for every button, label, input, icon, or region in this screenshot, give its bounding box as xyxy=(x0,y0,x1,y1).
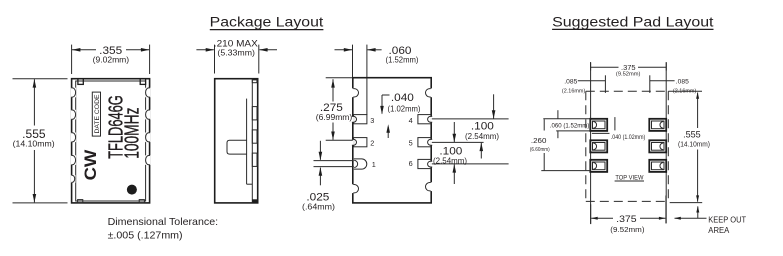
top-right corner notch xyxy=(140,79,145,85)
date code box xyxy=(92,92,101,136)
svg-text:4: 4 xyxy=(409,116,413,125)
svg-text:(1.52mm): (1.52mm) xyxy=(386,56,419,65)
svg-text:100MHz: 100MHz xyxy=(122,108,144,159)
svg-text:(2.16mm): (2.16mm) xyxy=(562,88,586,94)
side view bottom-right pad xyxy=(252,199,257,203)
pin 4 pad xyxy=(409,115,433,125)
svg-text:KEEP OUT: KEEP OUT xyxy=(708,215,746,224)
svg-text:Suggested Pad Layout: Suggested Pad Layout xyxy=(552,14,714,29)
side view lip line xyxy=(251,79,253,203)
svg-text:(6.99mm): (6.99mm) xyxy=(316,113,353,122)
svg-text:1: 1 xyxy=(372,160,376,169)
castellation top-left xyxy=(352,88,359,97)
svg-text:±.005 (.127mm): ±.005 (.127mm) xyxy=(108,229,183,241)
side view pin 1 xyxy=(252,107,257,120)
dimension .210 MAX (5.33mm) xyxy=(196,38,277,73)
svg-text:.060 (1.52mm): .060 (1.52mm) xyxy=(550,122,590,129)
pad layout: right extension line xyxy=(665,62,667,223)
bottom view outline xyxy=(352,78,434,203)
svg-text:(.64mm): (.64mm) xyxy=(302,202,335,211)
dimension .025 (.64mm) xyxy=(302,141,335,212)
dimension .085 right xyxy=(650,75,697,94)
svg-text:(6.60mm): (6.60mm) xyxy=(530,147,550,153)
side view inner step xyxy=(246,99,248,185)
svg-text:(14.10mm): (14.10mm) xyxy=(13,138,55,148)
svg-text:.085: .085 xyxy=(676,78,689,85)
dimension .555 (14.10mm) xyxy=(13,79,68,203)
pad layout: left extension line xyxy=(590,62,592,224)
top-left corner notch xyxy=(78,79,83,85)
svg-text:(5.33mm): (5.33mm) xyxy=(217,48,255,57)
dimension .100 (2.54mm) lower xyxy=(432,122,509,184)
svg-text:Package Layout: Package Layout xyxy=(210,14,324,29)
svg-text:.555: .555 xyxy=(683,129,701,139)
svg-text:(1.02mm): (1.02mm) xyxy=(388,104,421,113)
dimension .060 (1.52mm) top xyxy=(335,45,419,115)
svg-text:(2.54mm): (2.54mm) xyxy=(465,132,499,141)
pin 1 pad with tab xyxy=(314,159,376,169)
svg-text:.375: .375 xyxy=(616,214,637,225)
side view pin 2 xyxy=(252,130,257,143)
dimension .100 (2.54mm) upper xyxy=(432,94,509,158)
svg-text:(9.52mm): (9.52mm) xyxy=(616,71,641,77)
pin 2 pad xyxy=(352,138,374,148)
svg-text:.085: .085 xyxy=(564,78,577,85)
svg-text:CW: CW xyxy=(81,149,100,181)
svg-text:.040: .040 xyxy=(391,92,414,104)
dimension .375 (9.52mm) bottom xyxy=(591,196,666,234)
dimension .060 (1.52mm) pad xyxy=(543,110,590,138)
castellation bottom-right xyxy=(426,182,434,191)
bottom-right corner notch xyxy=(139,200,144,203)
svg-text:2: 2 xyxy=(370,139,374,148)
svg-text:.260: .260 xyxy=(531,138,547,145)
svg-text:DATE CODE: DATE CODE xyxy=(95,95,101,134)
dimension .260 (6.60mm) xyxy=(530,119,590,170)
svg-text:5: 5 xyxy=(409,139,413,148)
side view cross tab xyxy=(227,140,247,154)
pin 3 pad xyxy=(352,115,374,125)
pin 6 pad xyxy=(409,159,433,168)
dimension .375 (9.52mm) top xyxy=(591,63,667,78)
svg-text:(9.52mm): (9.52mm) xyxy=(610,227,644,234)
svg-text:Dimensional Tolerance:: Dimensional Tolerance: xyxy=(108,216,219,228)
svg-text:.100: .100 xyxy=(471,120,494,132)
bottom-left corner notch xyxy=(78,200,83,203)
svg-text:(2.54mm): (2.54mm) xyxy=(433,156,467,165)
svg-text:AREA: AREA xyxy=(708,226,730,235)
svg-text:(9.02mm): (9.02mm) xyxy=(93,56,130,65)
svg-text:3: 3 xyxy=(370,116,374,125)
svg-text:(14.10mm): (14.10mm) xyxy=(678,142,710,149)
dimension .040 (1.02mm) pad xyxy=(592,117,645,141)
title Suggested Pad Layout xyxy=(552,14,714,29)
keep out area label and leaders xyxy=(674,206,746,235)
svg-text:.040 (1.02mm): .040 (1.02mm) xyxy=(611,134,646,141)
front view package outline xyxy=(72,79,150,203)
keep out area dashed outline xyxy=(586,91,669,201)
front view right edge castellations xyxy=(145,88,150,165)
front view left edge castellations xyxy=(71,88,76,183)
side view pin 3 xyxy=(252,153,257,166)
pin 1 dot xyxy=(127,185,137,195)
pin 5 pad xyxy=(409,138,433,148)
castellation bottom-left xyxy=(352,184,359,193)
side view outline xyxy=(215,79,258,203)
dimension .355 (9.02mm) xyxy=(72,45,150,74)
right pad column xyxy=(649,119,666,172)
dimension .040 (1.02mm) left xyxy=(380,92,421,138)
dimensional tolerance note xyxy=(108,216,219,241)
castellation top-right xyxy=(426,88,434,97)
svg-text:.275: .275 xyxy=(320,102,343,114)
dimension .555 (14.10mm) right xyxy=(668,91,710,202)
dimension .275 (6.99mm) xyxy=(316,78,353,141)
side view top-right notch xyxy=(252,80,257,83)
svg-text:6: 6 xyxy=(409,159,413,168)
left pad column xyxy=(590,119,607,172)
label TOP VIEW xyxy=(615,175,644,182)
dimension .085 left xyxy=(562,75,606,94)
title Package Layout xyxy=(210,14,324,29)
